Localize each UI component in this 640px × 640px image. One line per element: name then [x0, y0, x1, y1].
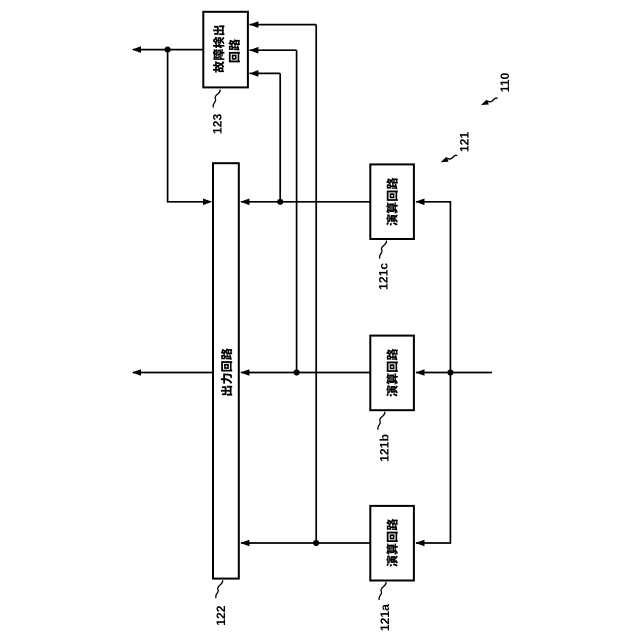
svg-text:110: 110	[498, 72, 512, 92]
svg-text:122: 122	[214, 605, 228, 626]
svg-text:123: 123	[210, 114, 224, 135]
svg-text:121a: 121a	[378, 604, 392, 631]
svg-text:121c: 121c	[376, 263, 390, 290]
svg-text:121b: 121b	[377, 434, 391, 462]
svg-text:121: 121	[458, 132, 472, 153]
